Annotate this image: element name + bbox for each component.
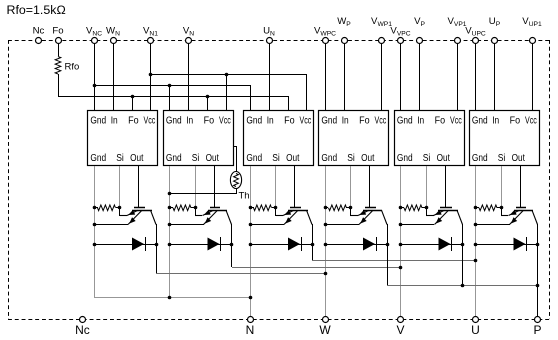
svg-text:Gnd: Gnd <box>397 115 413 126</box>
svg-text:Gnd: Gnd <box>472 115 488 126</box>
svg-text:Gnd: Gnd <box>472 153 488 164</box>
svg-text:Si: Si <box>347 153 355 164</box>
svg-text:Gnd: Gnd <box>397 153 413 164</box>
svg-text:V: V <box>396 323 404 337</box>
svg-text:Out: Out <box>437 153 450 164</box>
svg-text:Si: Si <box>272 153 280 164</box>
svg-text:In: In <box>186 115 193 126</box>
svg-text:Rfo=1.5kΩ: Rfo=1.5kΩ <box>7 3 66 17</box>
svg-text:Fo: Fo <box>359 115 370 126</box>
svg-text:Fo: Fo <box>204 115 215 126</box>
svg-text:Vcc: Vcc <box>300 115 312 126</box>
svg-text:Gnd: Gnd <box>321 115 337 126</box>
svg-text:Si: Si <box>192 153 200 164</box>
svg-text:Gnd: Gnd <box>166 115 182 126</box>
svg-text:N: N <box>246 323 255 337</box>
svg-text:Nc: Nc <box>75 323 90 337</box>
svg-text:Gnd: Gnd <box>90 115 106 126</box>
svg-text:Rfo: Rfo <box>65 62 80 73</box>
svg-text:Out: Out <box>206 153 219 164</box>
svg-text:Fo: Fo <box>510 115 521 126</box>
svg-text:Vcc: Vcc <box>219 115 231 126</box>
svg-text:In: In <box>342 115 349 126</box>
svg-text:Fo: Fo <box>284 115 295 126</box>
svg-text:Out: Out <box>512 153 525 164</box>
svg-text:W: W <box>319 323 331 337</box>
svg-text:Out: Out <box>286 153 299 164</box>
svg-text:Vcc: Vcc <box>450 115 462 126</box>
svg-text:P: P <box>533 323 541 337</box>
svg-text:In: In <box>417 115 424 126</box>
svg-text:In: In <box>111 115 118 126</box>
svg-text:Gnd: Gnd <box>246 153 262 164</box>
svg-text:Vcc: Vcc <box>144 115 156 126</box>
svg-text:Vcc: Vcc <box>525 115 537 126</box>
svg-text:Si: Si <box>423 153 431 164</box>
svg-text:Si: Si <box>116 153 124 164</box>
svg-text:U: U <box>471 323 480 337</box>
svg-text:Out: Out <box>361 153 374 164</box>
svg-text:Th: Th <box>239 191 250 202</box>
svg-text:Gnd: Gnd <box>321 153 337 164</box>
svg-text:Gnd: Gnd <box>90 153 106 164</box>
svg-text:In: In <box>492 115 499 126</box>
svg-text:In: In <box>267 115 274 126</box>
svg-text:Gnd: Gnd <box>166 153 182 164</box>
svg-text:Si: Si <box>498 153 506 164</box>
svg-text:Nc: Nc <box>33 26 45 37</box>
svg-text:Fo: Fo <box>52 26 63 37</box>
svg-text:Gnd: Gnd <box>246 115 262 126</box>
svg-text:Vcc: Vcc <box>375 115 387 126</box>
svg-text:Out: Out <box>130 153 143 164</box>
svg-text:Fo: Fo <box>435 115 446 126</box>
svg-text:Fo: Fo <box>128 115 139 126</box>
